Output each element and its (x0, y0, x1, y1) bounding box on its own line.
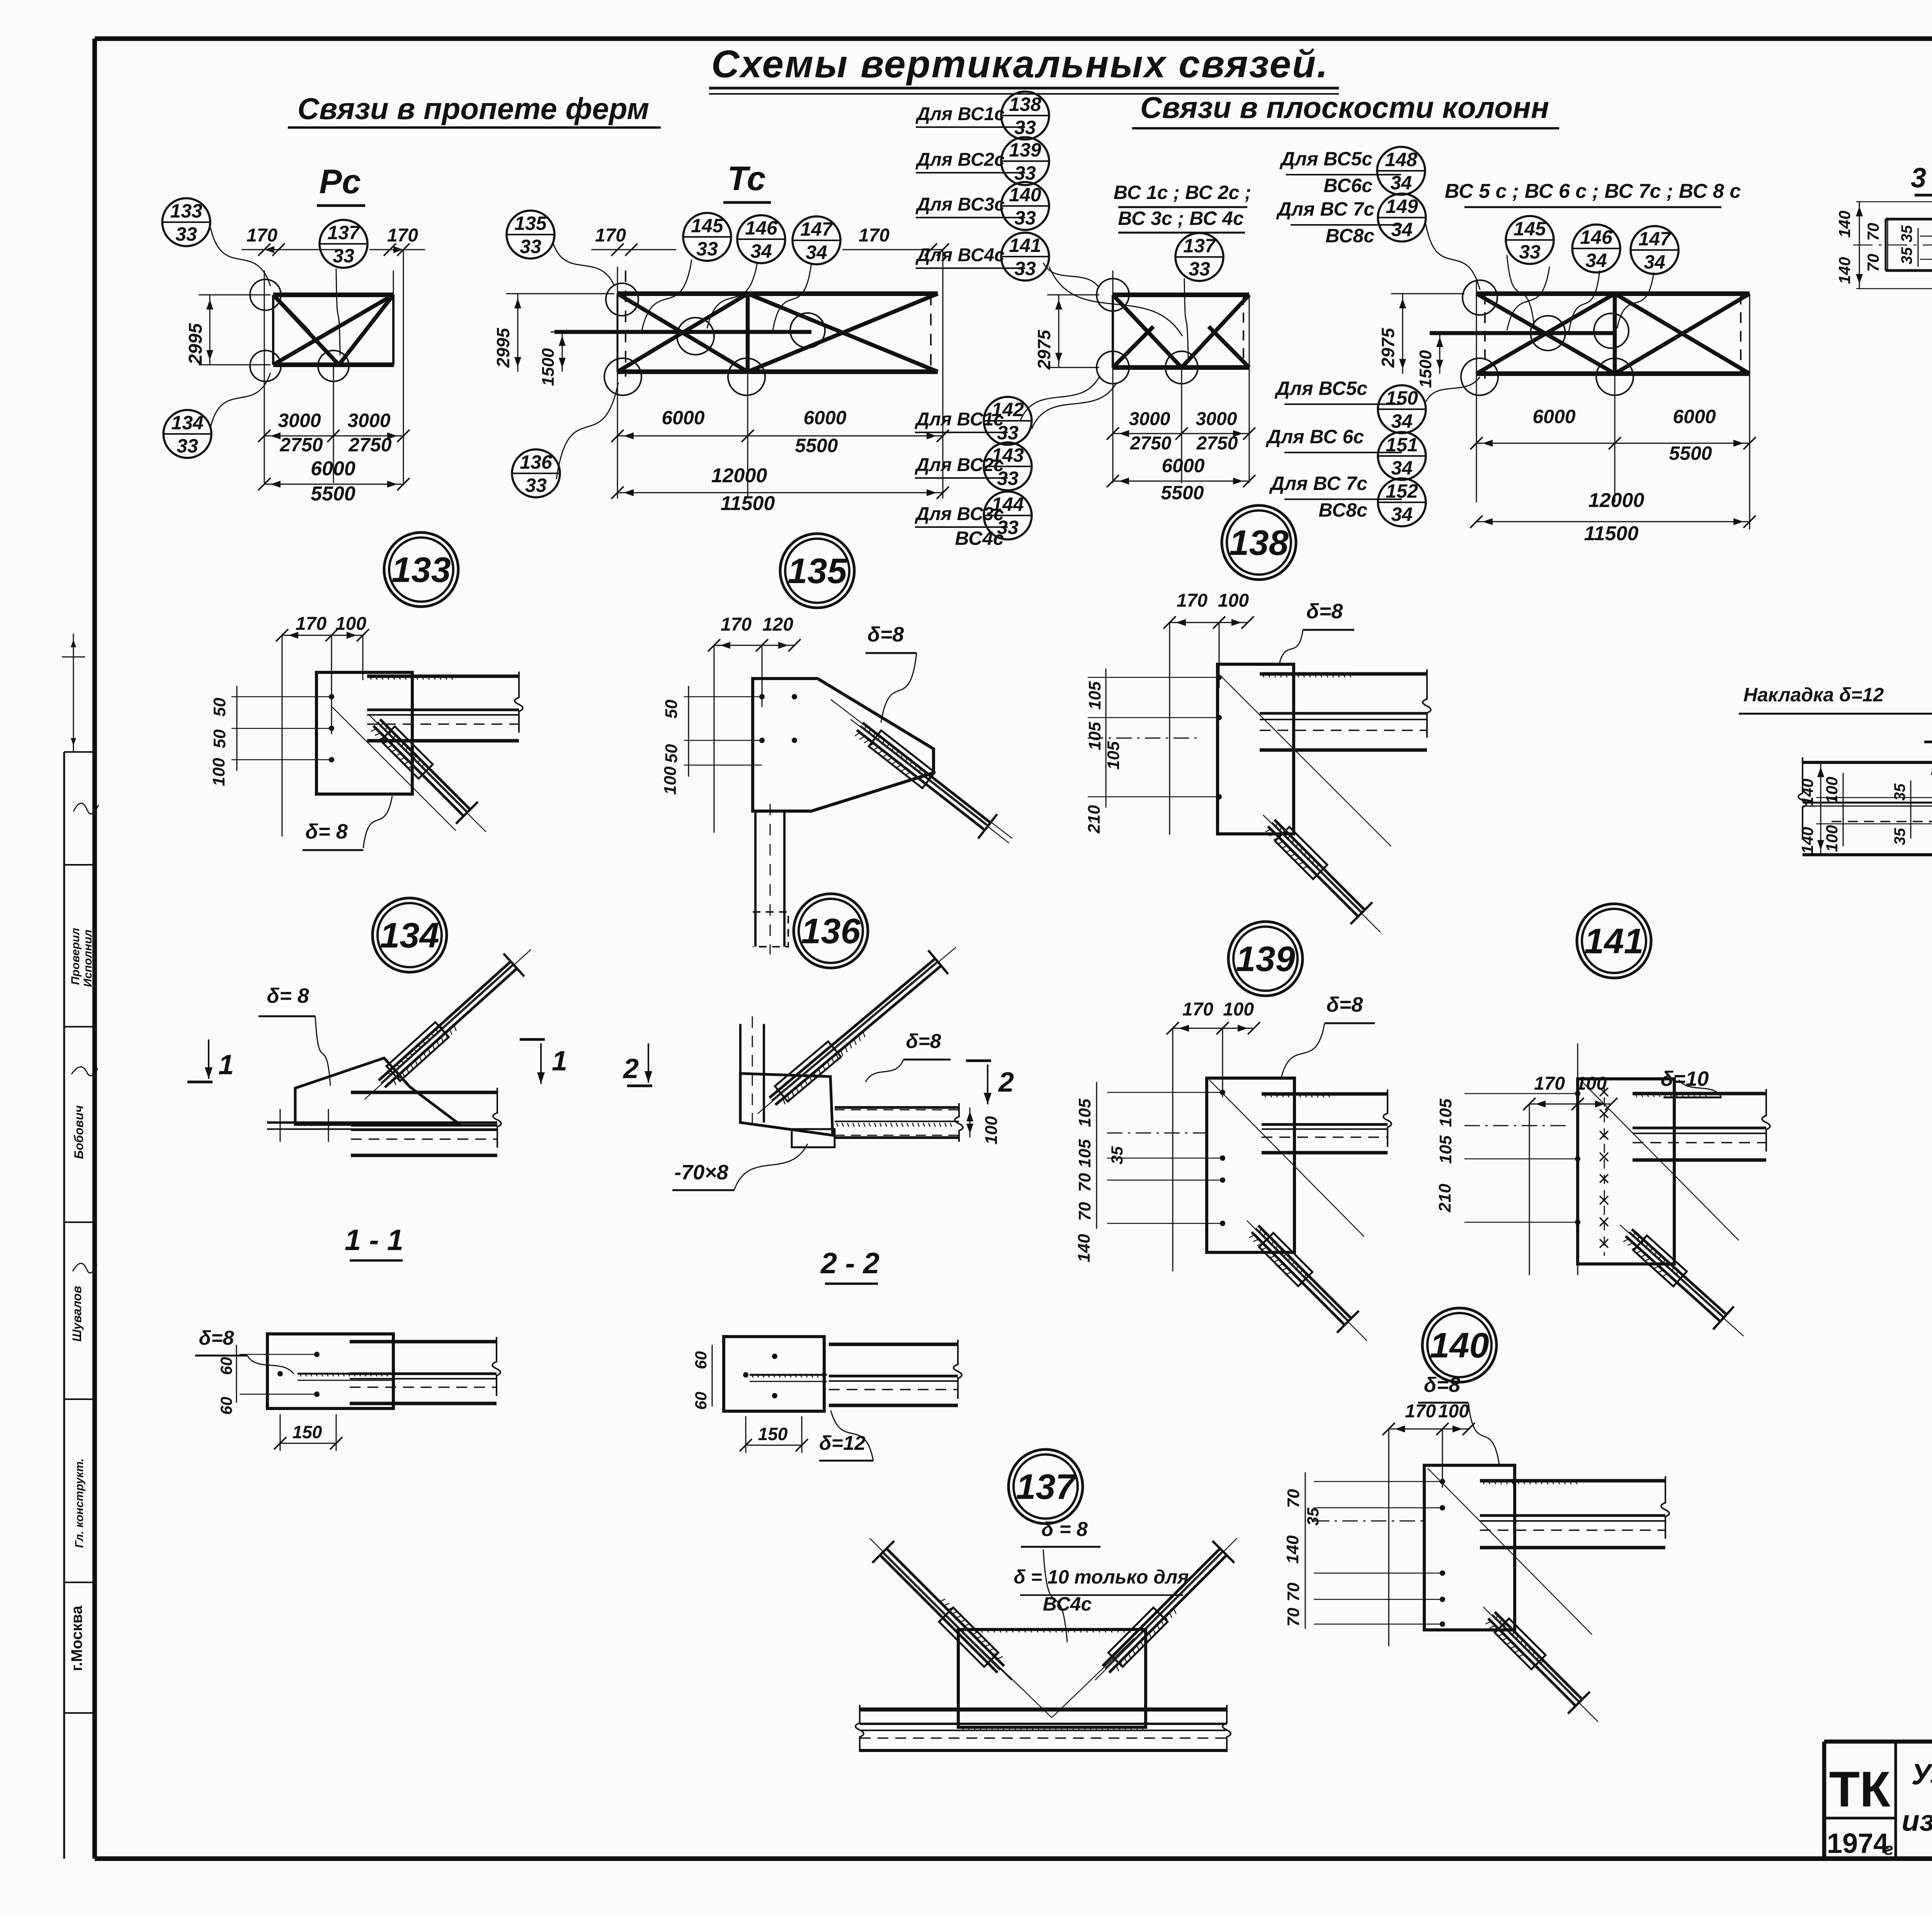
svg-text:34: 34 (1391, 219, 1413, 240)
svg-text:100: 100 (1823, 825, 1841, 852)
svg-text:33: 33 (997, 422, 1019, 444)
svg-text:70: 70 (1864, 254, 1882, 272)
svg-text:35: 35 (1898, 247, 1915, 264)
svg-text:2: 2 (622, 1053, 639, 1084)
svg-text:138: 138 (1229, 523, 1289, 563)
svg-text:149: 149 (1386, 196, 1418, 217)
svg-text:137: 137 (1016, 1467, 1077, 1507)
svg-text:170: 170 (595, 225, 626, 246)
svg-text:139: 139 (1236, 939, 1295, 979)
svg-text:139: 139 (1009, 139, 1041, 161)
svg-text:170: 170 (1182, 999, 1213, 1020)
svg-text:δ=8: δ=8 (906, 1030, 941, 1053)
svg-text:133: 133 (391, 550, 451, 590)
svg-text:δ=8: δ=8 (1306, 600, 1343, 623)
svg-text:ВС4с: ВС4с (1043, 1593, 1092, 1615)
svg-text:33: 33 (696, 238, 718, 260)
svg-text:δ = 8: δ = 8 (1041, 1518, 1088, 1541)
svg-text:δ=8: δ=8 (1424, 1373, 1461, 1397)
svg-text:50: 50 (210, 729, 229, 748)
svg-text:70: 70 (1284, 1607, 1303, 1626)
svg-text:210: 210 (1435, 1184, 1454, 1213)
svg-text:70: 70 (1284, 1489, 1303, 1508)
svg-text:Для ВС3с: Для ВС3с (914, 504, 1004, 524)
svg-text:140: 140 (1798, 827, 1816, 854)
svg-text:Гл. конструкт.: Гл. конструкт. (73, 1458, 86, 1548)
svg-text:34: 34 (1391, 457, 1413, 479)
svg-text:34: 34 (750, 240, 772, 262)
svg-text:6000: 6000 (1673, 406, 1716, 427)
svg-text:35: 35 (1304, 1507, 1322, 1526)
svg-text:Для ВС3с: Для ВС3с (915, 194, 1005, 215)
svg-text:140: 140 (1075, 1234, 1094, 1262)
svg-text:1500: 1500 (539, 348, 558, 386)
svg-text:11500: 11500 (1584, 522, 1639, 545)
svg-text:6000: 6000 (1162, 455, 1204, 476)
svg-text:140: 140 (1430, 1326, 1489, 1365)
svg-text:1500: 1500 (1416, 350, 1435, 388)
svg-text:147: 147 (1638, 228, 1672, 250)
svg-text:-70×8: -70×8 (674, 1161, 728, 1184)
svg-text:Связи в пропете ферм: Связи в пропете ферм (298, 92, 649, 126)
svg-text:60: 60 (692, 1351, 710, 1369)
svg-text:133: 133 (170, 200, 202, 222)
svg-text:70: 70 (1284, 1582, 1303, 1601)
svg-text:Для ВС5с: Для ВС5с (1279, 148, 1372, 170)
svg-text:50: 50 (662, 744, 681, 763)
svg-text:Исполнил: Исполнил (82, 929, 94, 987)
svg-text:3: 3 (1911, 163, 1926, 194)
svg-text:ВС8с: ВС8с (1318, 499, 1367, 521)
svg-text:Для ВС2с: Для ВС2с (914, 455, 1004, 475)
svg-text:34: 34 (1644, 251, 1665, 273)
svg-text:150: 150 (758, 1424, 788, 1444)
svg-text:70: 70 (1864, 223, 1882, 241)
svg-text:170: 170 (721, 614, 752, 635)
svg-text:150: 150 (1386, 387, 1418, 409)
svg-text:6000: 6000 (311, 458, 355, 480)
svg-text:3000: 3000 (1129, 409, 1170, 429)
svg-text:142: 142 (992, 399, 1024, 420)
svg-text:33: 33 (1014, 117, 1036, 138)
svg-text:140: 140 (1835, 211, 1854, 238)
svg-text:Для ВС 7с: Для ВС 7с (1269, 473, 1367, 494)
svg-text:170: 170 (1534, 1073, 1565, 1094)
svg-text:2750: 2750 (279, 434, 323, 456)
svg-text:140: 140 (1835, 257, 1854, 284)
svg-text:ВС 5 с ; ВС 6 с ; ВС 7с ; ВС: ВС 5 с ; ВС 6 с ; ВС 7с ; ВС 8 с (1445, 180, 1741, 202)
svg-text:г: г (1884, 1840, 1893, 1859)
svg-text:141: 141 (1009, 235, 1041, 256)
svg-text:ВС4с: ВС4с (955, 527, 1004, 549)
svg-text:148: 148 (1385, 149, 1417, 170)
svg-text:100: 100 (209, 758, 228, 786)
svg-text:105: 105 (1436, 1099, 1455, 1127)
svg-text:Для ВС4с: Для ВС4с (915, 245, 1005, 265)
svg-text:δ= 8: δ= 8 (267, 984, 309, 1007)
svg-text:140: 140 (1009, 184, 1041, 206)
svg-text:Для ВС 7с: Для ВС 7с (1276, 198, 1374, 220)
svg-text:6000: 6000 (662, 407, 704, 429)
svg-text:137: 137 (327, 222, 361, 243)
svg-text:151: 151 (1386, 434, 1418, 456)
svg-text:δ=8: δ=8 (867, 623, 904, 646)
svg-text:105: 105 (1085, 722, 1104, 750)
svg-text:140: 140 (1798, 779, 1816, 806)
svg-text:144: 144 (992, 493, 1024, 515)
svg-text:3000: 3000 (1196, 409, 1237, 429)
svg-text:Для ВС 6с: Для ВС 6с (1265, 426, 1364, 447)
svg-text:143: 143 (992, 444, 1024, 466)
svg-text:100: 100 (982, 1116, 1001, 1145)
svg-text:50: 50 (210, 697, 229, 716)
svg-text:5500: 5500 (1161, 482, 1204, 503)
svg-text:33: 33 (1189, 258, 1210, 280)
svg-text:170: 170 (387, 225, 418, 246)
svg-text:2750: 2750 (1130, 433, 1172, 454)
svg-text:5500: 5500 (1669, 442, 1712, 464)
svg-text:105: 105 (1085, 681, 1104, 710)
svg-text:33: 33 (177, 435, 198, 457)
svg-text:Рс: Рс (319, 162, 361, 201)
svg-text:Схемы вертикальных связей.: Схемы вертикальных связей. (711, 43, 1329, 86)
svg-text:δ=10: δ=10 (1661, 1067, 1709, 1090)
svg-text:1: 1 (552, 1046, 567, 1077)
svg-text:134: 134 (380, 916, 439, 955)
svg-text:Для ВС1с: Для ВС1с (915, 104, 1005, 124)
svg-text:100: 100 (1823, 777, 1841, 804)
svg-text:170: 170 (296, 614, 327, 634)
svg-text:Шувалов: Шувалов (70, 1286, 84, 1342)
svg-text:2975: 2975 (1378, 327, 1398, 368)
svg-text:δ = 10 только для: δ = 10 только для (1014, 1566, 1189, 1588)
svg-text:ТК: ТК (1829, 1761, 1891, 1817)
svg-text:35: 35 (1108, 1146, 1126, 1164)
svg-text:12000: 12000 (1588, 489, 1645, 512)
svg-text:33: 33 (333, 245, 354, 267)
svg-text:33: 33 (997, 468, 1019, 489)
svg-text:2: 2 (998, 1067, 1014, 1098)
svg-text:105: 105 (1075, 1099, 1094, 1127)
svg-text:12000: 12000 (711, 464, 767, 487)
svg-text:152: 152 (1386, 480, 1418, 502)
svg-text:137: 137 (1183, 235, 1216, 257)
svg-text:136: 136 (801, 912, 861, 951)
svg-text:Связи в плоскости колонн: Связи в плоскости колонн (1140, 90, 1549, 124)
svg-text:ВС 3с ; ВС 4с: ВС 3с ; ВС 4с (1118, 208, 1244, 229)
svg-text:3000: 3000 (347, 410, 390, 431)
svg-text:50: 50 (662, 699, 681, 718)
svg-text:6000: 6000 (1532, 406, 1575, 427)
svg-text:105: 105 (1104, 741, 1123, 770)
svg-text:120: 120 (762, 614, 793, 635)
svg-text:60: 60 (217, 1397, 235, 1415)
svg-text:35: 35 (1898, 225, 1915, 242)
svg-text:134: 134 (171, 412, 203, 434)
svg-text:70: 70 (1075, 1173, 1094, 1192)
svg-text:105: 105 (1075, 1139, 1094, 1168)
svg-text:34: 34 (1390, 172, 1412, 194)
svg-text:11500: 11500 (721, 492, 775, 515)
svg-text:135: 135 (514, 213, 547, 234)
svg-text:из горячекатаных и гнутых: из горячекатаных и гнутых профилей . (1901, 1805, 1932, 1837)
svg-text:33: 33 (525, 475, 547, 496)
svg-text:Накладка δ=12: Накладка δ=12 (1743, 684, 1884, 706)
svg-text:146: 146 (745, 217, 778, 239)
svg-text:5500: 5500 (795, 435, 838, 456)
svg-text:δ=8: δ=8 (199, 1327, 234, 1349)
svg-text:2995: 2995 (185, 323, 206, 365)
svg-text:140: 140 (1283, 1535, 1302, 1564)
svg-text:Узлы заводского изготовления: Узлы заводского изготовления связей (1912, 1758, 1932, 1791)
svg-text:170: 170 (1177, 590, 1207, 611)
svg-text:70: 70 (1075, 1202, 1094, 1221)
svg-text:210: 210 (1085, 805, 1104, 834)
svg-text:105: 105 (1436, 1135, 1455, 1164)
svg-text:170: 170 (247, 225, 277, 246)
svg-text:Для ВС2с: Для ВС2с (915, 150, 1005, 170)
svg-text:33: 33 (1014, 207, 1036, 229)
svg-text:100: 100 (1218, 590, 1249, 611)
svg-text:170: 170 (1405, 1401, 1436, 1422)
svg-text:60: 60 (692, 1392, 710, 1410)
svg-text:Проверил: Проверил (69, 928, 82, 985)
svg-text:35: 35 (1891, 783, 1908, 801)
svg-text:ВС8с: ВС8с (1325, 225, 1374, 247)
svg-text:34: 34 (1391, 410, 1413, 432)
svg-text:2975: 2975 (1034, 329, 1054, 370)
svg-text:33: 33 (175, 223, 197, 245)
svg-text:Для ВС1с: Для ВС1с (914, 409, 1004, 430)
svg-text:ВС6с: ВС6с (1323, 175, 1372, 196)
svg-text:170: 170 (859, 225, 889, 246)
svg-text:2995: 2995 (493, 327, 513, 368)
svg-text:Для ВС5с: Для ВС5с (1274, 378, 1367, 399)
svg-text:г.Москва: г.Москва (68, 1605, 85, 1671)
svg-text:3000: 3000 (278, 410, 321, 431)
svg-text:141: 141 (1584, 922, 1644, 961)
svg-text:138: 138 (1009, 94, 1041, 115)
svg-text:147: 147 (800, 218, 833, 240)
svg-text:1: 1 (218, 1050, 234, 1080)
svg-text:1 - 1: 1 - 1 (345, 1224, 403, 1257)
svg-text:34: 34 (1585, 250, 1607, 271)
svg-text:150: 150 (293, 1422, 322, 1442)
svg-text:33: 33 (1014, 258, 1036, 279)
svg-text:135: 135 (787, 551, 847, 591)
svg-text:34: 34 (1391, 503, 1413, 525)
svg-text:34: 34 (806, 242, 827, 263)
svg-text:100: 100 (1438, 1401, 1469, 1422)
svg-text:ВС 1с ; ВС 2с ;: ВС 1с ; ВС 2с ; (1114, 182, 1251, 203)
svg-text:100: 100 (335, 614, 366, 634)
svg-text:33: 33 (520, 236, 541, 257)
svg-text:6000: 6000 (803, 407, 846, 429)
svg-text:Тс: Тс (727, 159, 765, 197)
svg-text:35: 35 (1891, 828, 1908, 845)
svg-text:100: 100 (1223, 999, 1254, 1020)
svg-text:δ=8: δ=8 (1327, 993, 1363, 1016)
svg-text:2750: 2750 (348, 434, 391, 456)
svg-text:5500: 5500 (311, 483, 355, 505)
svg-text:145: 145 (1514, 218, 1546, 240)
svg-text:2 - 2: 2 - 2 (820, 1247, 879, 1280)
svg-text:145: 145 (691, 215, 724, 236)
svg-text:60: 60 (217, 1357, 235, 1375)
svg-text:33: 33 (1014, 162, 1036, 184)
svg-text:100: 100 (661, 766, 680, 795)
svg-text:1974: 1974 (1827, 1828, 1889, 1859)
svg-text:2750: 2750 (1196, 433, 1238, 454)
svg-text:146: 146 (1580, 226, 1613, 248)
svg-text:136: 136 (520, 451, 553, 473)
svg-text:Бобович: Бобович (72, 1105, 86, 1159)
svg-text:33: 33 (1519, 241, 1541, 263)
svg-text:δ= 8: δ= 8 (305, 820, 348, 843)
